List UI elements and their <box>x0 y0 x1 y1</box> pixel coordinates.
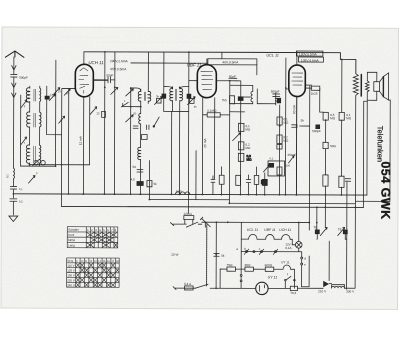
svg-text:UY 11: UY 11 <box>268 275 278 279</box>
svg-text:600Ω: 600Ω <box>265 263 273 267</box>
svg-text:MΩ: MΩ <box>346 116 352 120</box>
svg-text:500pF: 500pF <box>271 89 280 93</box>
svg-text:25 mA: 25 mA <box>203 138 207 148</box>
svg-text:15: 15 <box>50 93 54 97</box>
svg-text:1k25: 1k25 <box>311 92 318 96</box>
svg-text:210 V: 210 V <box>318 289 327 293</box>
svg-text:0,1: 0,1 <box>5 174 9 178</box>
svg-text:Schalter: Schalter <box>68 228 79 232</box>
svg-text:12 mA: 12 mA <box>79 135 83 145</box>
svg-text:a: a <box>236 247 238 251</box>
svg-text:MΩ: MΩ <box>283 139 289 143</box>
svg-text:90 mA: 90 mA <box>292 104 296 114</box>
svg-text:0,1: 0,1 <box>19 187 23 191</box>
svg-text:TE: TE <box>313 225 317 229</box>
svg-text:Netz: Netz <box>67 259 74 263</box>
svg-text:MΩ: MΩ <box>245 146 251 150</box>
svg-text:50pF: 50pF <box>106 73 113 77</box>
svg-text:5k: 5k <box>221 254 225 258</box>
svg-text:7: 7 <box>60 119 62 123</box>
svg-text:65Ω: 65Ω <box>245 263 251 267</box>
svg-text:054 GWK: 054 GWK <box>378 161 392 219</box>
svg-text:UBF 11: UBF 11 <box>187 62 202 67</box>
svg-text:0,8Ω: 0,8Ω <box>176 189 182 193</box>
svg-text:50: 50 <box>133 165 137 169</box>
svg-text:250pF: 250pF <box>288 153 297 157</box>
svg-text:f: f <box>287 272 288 276</box>
svg-text:5k: 5k <box>153 182 157 186</box>
svg-text:0,1MΩ: 0,1MΩ <box>207 109 217 113</box>
svg-text:Lang: Lang <box>68 243 75 247</box>
svg-text:75Ω: 75Ω <box>227 263 233 267</box>
svg-text:Telefunken: Telefunken <box>376 126 385 162</box>
svg-text:25: 25 <box>96 111 100 115</box>
svg-text:MΩ: MΩ <box>330 116 336 120</box>
svg-text:0,1: 0,1 <box>270 156 274 160</box>
svg-text:105V,4.6mA: 105V,4.6mA <box>301 59 320 63</box>
svg-text:7k5: 7k5 <box>222 98 227 102</box>
svg-text:50pF: 50pF <box>229 75 236 79</box>
svg-text:UCL 11: UCL 11 <box>247 228 258 232</box>
svg-text:40V,0.5mA: 40V,0.5mA <box>222 60 239 64</box>
svg-text:200 V: 200 V <box>346 290 355 294</box>
svg-text:TE: TE <box>338 227 342 231</box>
svg-text:220 V: 220 V <box>67 278 75 282</box>
svg-text:500pF: 500pF <box>19 76 28 80</box>
svg-text:UBF 11: UBF 11 <box>264 228 275 232</box>
svg-text:UCL 11: UCL 11 <box>266 54 279 58</box>
svg-text:50: 50 <box>133 111 137 115</box>
svg-text:290V,2.6mA: 290V,2.6mA <box>110 59 129 63</box>
svg-text:190V,0.5mA: 190V,0.5mA <box>299 52 318 56</box>
svg-text:30: 30 <box>66 91 70 95</box>
svg-text:0,4 A: 0,4 A <box>184 282 192 286</box>
svg-text:150 V: 150 V <box>67 273 75 277</box>
svg-text:MΩ: MΩ <box>283 121 289 125</box>
svg-text:20 W: 20 W <box>171 253 178 257</box>
svg-text:UCH 11: UCH 11 <box>88 60 104 65</box>
svg-text:5k: 5k <box>301 119 305 123</box>
svg-text:0,1A: 0,1A <box>285 246 292 250</box>
svg-text:50Ω: 50Ω <box>330 144 336 148</box>
svg-text:120 Ω: 120 Ω <box>183 212 192 216</box>
svg-text:b: b <box>244 247 246 251</box>
svg-text:65V,0.5mA: 65V,0.5mA <box>110 67 127 71</box>
svg-text:T0,3: T0,3 <box>290 291 296 295</box>
svg-text:500pF: 500pF <box>312 129 321 133</box>
svg-text:125 V: 125 V <box>67 269 75 273</box>
svg-text:0,5: 0,5 <box>19 200 23 204</box>
svg-text:e: e <box>304 263 306 267</box>
svg-text:4,5: 4,5 <box>130 177 135 181</box>
svg-text:MΩ: MΩ <box>247 157 253 161</box>
svg-text:110 V: 110 V <box>67 264 74 268</box>
svg-text:Mittel: Mittel <box>68 238 76 242</box>
svg-text:15: 15 <box>58 89 62 93</box>
svg-text:UCH 11: UCH 11 <box>279 228 291 232</box>
svg-text:MΩ: MΩ <box>245 127 251 131</box>
svg-text:240 V: 240 V <box>67 283 75 287</box>
svg-text:UY 11: UY 11 <box>281 260 290 264</box>
svg-text:d: d <box>304 257 306 261</box>
svg-text:Kurz: Kurz <box>68 233 75 237</box>
